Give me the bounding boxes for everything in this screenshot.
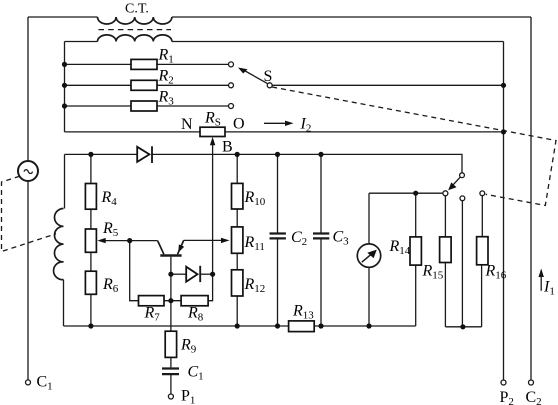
svg-text:RS: RS — [204, 110, 221, 129]
svg-text:S: S — [264, 68, 273, 85]
svg-text:C2: C2 — [526, 389, 542, 405]
svg-text:R10: R10 — [244, 189, 266, 208]
svg-text:R12: R12 — [244, 276, 266, 295]
svg-text:R4: R4 — [101, 189, 118, 208]
svg-text:B: B — [222, 139, 233, 156]
svg-text:C1: C1 — [37, 374, 53, 393]
svg-text:R11: R11 — [244, 234, 265, 253]
svg-text:P2: P2 — [500, 389, 514, 405]
svg-text:N: N — [181, 116, 193, 133]
svg-text:I2: I2 — [300, 116, 312, 135]
svg-text:R6: R6 — [102, 276, 119, 295]
svg-text:P1: P1 — [181, 388, 195, 405]
svg-text:R5: R5 — [102, 220, 119, 239]
svg-text:R15: R15 — [422, 263, 444, 282]
svg-text:O: O — [233, 116, 245, 133]
svg-text:R13: R13 — [292, 303, 314, 322]
svg-text:C2: C2 — [291, 229, 307, 248]
svg-text:R1: R1 — [158, 47, 174, 66]
svg-text:R2: R2 — [158, 68, 174, 87]
svg-text:R8: R8 — [187, 305, 204, 324]
svg-text:C3: C3 — [333, 229, 350, 248]
svg-text:R7: R7 — [144, 305, 161, 324]
svg-text:C1: C1 — [188, 364, 204, 383]
svg-text:R9: R9 — [180, 337, 197, 356]
svg-text:I1: I1 — [543, 279, 555, 298]
svg-text:C.T.: C.T. — [125, 2, 149, 17]
svg-text:R14: R14 — [389, 238, 411, 257]
svg-text:R3: R3 — [158, 89, 175, 108]
